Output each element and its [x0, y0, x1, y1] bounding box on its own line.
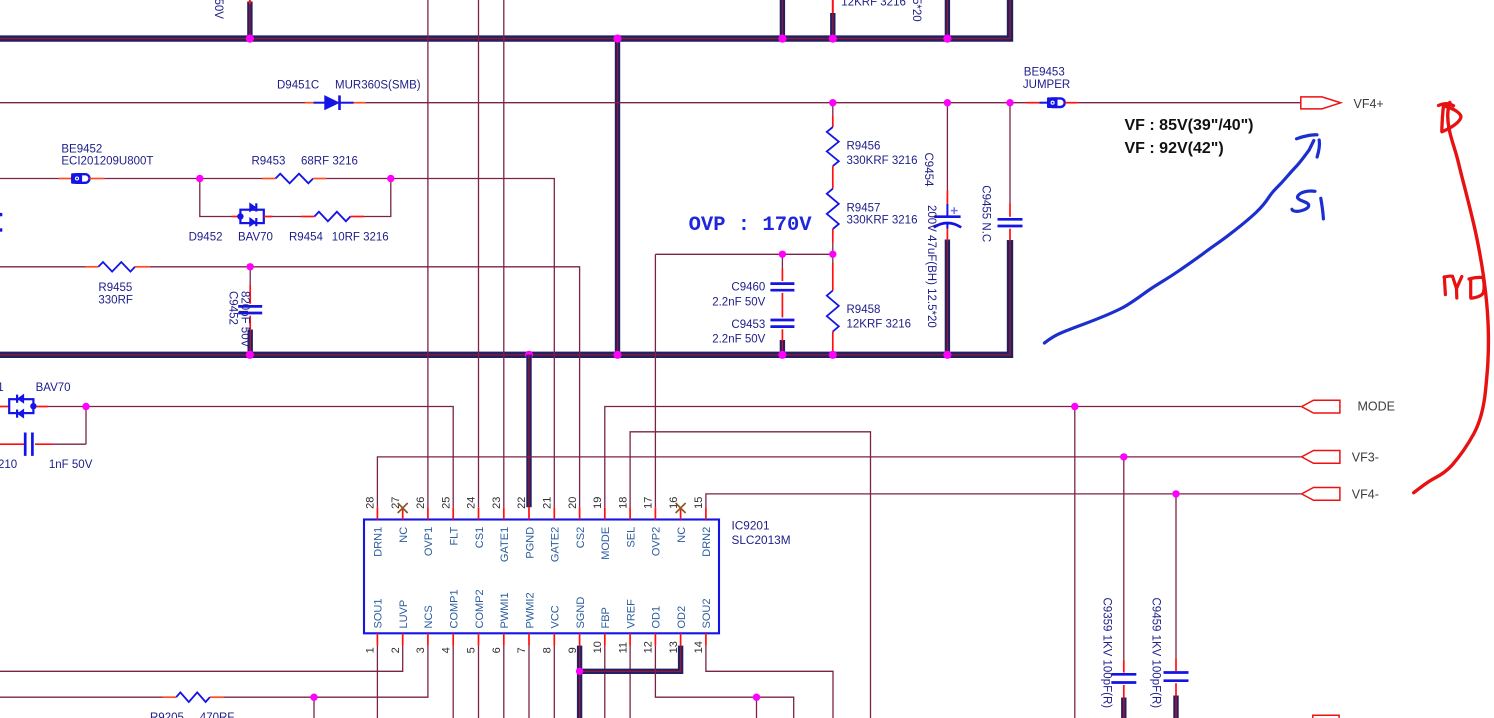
svg-text:14: 14: [693, 641, 705, 653]
svg-text:SLC2013M: SLC2013M: [732, 533, 791, 547]
capacitor C9210 1nF 50V: [0, 433, 86, 456]
svg-text:4: 4: [440, 647, 452, 653]
svg-text:26: 26: [415, 497, 427, 509]
capacitor C9455 N.C: [998, 103, 1023, 241]
svg-text:OVP1: OVP1: [423, 527, 435, 556]
pin 2 LUVP (bottom stub): [402, 633, 404, 645]
annotation: blue 1 after S: [1321, 198, 1324, 219]
wire: pin 6 PWMI1 down to bottom edge: [503, 646, 505, 718]
junction node VF4- C9459: [1172, 490, 1179, 497]
wire: pin 5 COMP2 down to bottom edge: [478, 646, 480, 718]
svg-text:3: 3: [415, 647, 427, 653]
wire: net from top edge to IC pin 24 CS1: [478, 0, 480, 507]
resistor R9453 68RF 3216: [263, 174, 327, 184]
wire: net from left edge to R9455: [0, 266, 86, 268]
wire: thick stub C9459 to bottom edge: [1173, 696, 1178, 718]
svg-text:NC: NC: [676, 527, 688, 543]
junction node bus2 x529: [525, 351, 533, 359]
svg-text:1: 1: [0, 382, 4, 394]
svg-text:BE9453: BE9453: [1024, 66, 1065, 78]
no-connect X on pin 16: [676, 503, 686, 513]
pin 6 PWMI1 (bottom stub): [503, 633, 505, 645]
wire: D9452 to R9454: [273, 216, 302, 218]
wire: VF3- net from IC pin 28 DRN1 to port: [377, 457, 1301, 507]
junction node NCS branch: [310, 694, 317, 701]
wire: bead to R9453, node at x=200: [104, 178, 262, 180]
svg-text:6: 6: [491, 647, 503, 653]
pin 22 PGND (top stub): [528, 507, 530, 519]
svg-text:VF : 92V(42"): VF : 92V(42"): [1125, 140, 1224, 157]
svg-text:25: 25: [440, 497, 452, 509]
svg-text:BE9452: BE9452: [61, 143, 102, 155]
svg-text:CS2: CS2: [575, 527, 587, 548]
junction node bus1 x833: [829, 35, 837, 43]
junction node R9453 right: [387, 175, 394, 182]
svg-text:12KRF 3216: 12KRF 3216: [841, 0, 906, 9]
capacitor C9452 820pF 50V: [238, 267, 262, 331]
svg-text:PGND: PGND: [524, 527, 536, 559]
svg-text:330KRF 3216: 330KRF 3216: [847, 155, 918, 167]
svg-text:C9460: C9460: [731, 282, 765, 294]
jumper BE9453: [1027, 98, 1065, 107]
svg-text:2.2nF 50V: 2.2nF 50V: [712, 297, 765, 309]
svg-text:VCC: VCC: [550, 605, 562, 628]
svg-text:VF : 85V(39"/40"): VF : 85V(39"/40"): [1125, 117, 1254, 134]
svg-text:C9453: C9453: [731, 319, 765, 331]
pin 17 OVP2 (top stub): [654, 507, 656, 519]
svg-text:22: 22: [516, 497, 528, 509]
junction node bus2 x250: [246, 351, 254, 359]
svg-text:820pF 50V: 820pF 50V: [238, 291, 250, 348]
svg-text:24: 24: [466, 497, 478, 509]
junction node MODE branch: [1071, 403, 1078, 410]
svg-text:DRN2: DRN2: [701, 527, 713, 557]
svg-text:210: 210: [0, 459, 17, 471]
svg-text:ECI201209U800T: ECI201209U800T: [61, 156, 153, 168]
svg-text:SGND: SGND: [575, 597, 587, 629]
svg-text:C9455 N.C: C9455 N.C: [979, 185, 991, 242]
junction node bus2 x947: [943, 351, 951, 359]
junction node VF4+ C9455: [1006, 99, 1013, 106]
svg-text:IC9201: IC9201: [732, 518, 770, 532]
wire: net from left edge to ferrite BE9452: [0, 178, 59, 180]
port VF4+: [1301, 97, 1341, 109]
port VF3-: [1302, 451, 1340, 464]
junction node OVP row C9460: [779, 251, 786, 258]
svg-text:470RF: 470RF: [200, 712, 235, 718]
wire: thick stub C9359 to bottom edge: [1121, 698, 1126, 718]
wire: branch down from NCS net at x=314: [313, 697, 315, 718]
resistor R9454 10RF 3216: [301, 212, 364, 222]
svg-text:PWMI2: PWMI2: [524, 592, 536, 628]
port fragment at bottom right edge: [1313, 715, 1339, 718]
svg-text:16: 16: [668, 497, 680, 509]
ferrite bead BE9452 ECI201209U800T: [59, 174, 104, 183]
svg-text:MODE: MODE: [1358, 399, 1396, 413]
svg-text:OD2: OD2: [676, 606, 688, 629]
resistor R9456 330KRF 3216: [827, 103, 839, 189]
svg-text:1nF 50V: 1nF 50V: [49, 459, 93, 471]
pin 15 DRN2 (top stub): [705, 507, 707, 519]
wire: branch down-left for D9452 parallel path: [200, 179, 232, 217]
svg-text:18: 18: [617, 497, 629, 509]
wire: ground return bus (lower horizontal, rises to C9455): [0, 240, 1010, 355]
annotation: blue S: [1292, 191, 1315, 211]
svg-text:8: 8: [542, 647, 554, 653]
pin 7 PWMI2 (bottom stub): [528, 633, 530, 645]
op-amp/controller IC9201 SLC2013M body: [364, 520, 719, 634]
svg-text:GATE2: GATE2: [550, 527, 562, 562]
dual diode D9201 BAV70 (left edge, left-pointing): [0, 395, 48, 418]
junction node bus2 x782: [778, 351, 786, 359]
wire: NCS pin 3 via R9205 to left edge: [224, 646, 428, 698]
svg-text:OVP2: OVP2: [651, 527, 663, 556]
wire: LUVP pin 2 to left edge: [0, 646, 403, 672]
svg-text:10RF 3216: 10RF 3216: [332, 232, 389, 244]
svg-text:VREF: VREF: [625, 599, 637, 629]
wire: OD1 pin 12 down and right: [655, 646, 793, 718]
junction node R9453 left: [196, 175, 203, 182]
wire: R9453 to corner down to IC pin 21 GATE2: [327, 179, 555, 508]
pin 3 NCS (bottom stub): [427, 633, 429, 645]
wire: OVP divider tap to IC pin 17 OVP2: [655, 254, 832, 507]
annotation: blue pen curve with arrow: [1044, 141, 1313, 344]
junction node bus1 x947: [943, 35, 951, 43]
svg-text:11: 11: [617, 642, 629, 653]
svg-text:200V 47uF(BH) 12.5*20: 200V 47uF(BH) 12.5*20: [925, 205, 937, 328]
svg-text:SOU2: SOU2: [701, 599, 713, 629]
wire: main HV+ bus (top horizontal): [0, 0, 1010, 39]
svg-text:15: 15: [693, 497, 705, 509]
svg-text:21: 21: [542, 497, 554, 509]
svg-text:SEL: SEL: [625, 527, 637, 548]
port MODE: [1302, 400, 1340, 413]
junction node bus1 x782: [778, 35, 786, 43]
svg-text:COMP1: COMP1: [449, 589, 461, 628]
svg-text:MODE: MODE: [600, 527, 612, 560]
svg-text:VF4-: VF4-: [1352, 488, 1379, 502]
no-connect X on pin 27: [398, 503, 408, 513]
svg-text:FLT: FLT: [449, 527, 461, 546]
annotation: red flag scribble top: [1439, 104, 1454, 106]
pin 27 NC (top stub): [402, 507, 404, 519]
pin 12 OD1 (bottom stub): [654, 633, 656, 645]
svg-text:R9454: R9454: [289, 232, 323, 244]
svg-text:LUVP: LUVP: [398, 600, 410, 629]
svg-text:C9452: C9452: [226, 291, 238, 325]
dual diode D9452 BAV70 (common-cathode, right-pointing): [232, 203, 273, 226]
svg-text:VF3-: VF3-: [1352, 451, 1379, 465]
svg-text:27: 27: [390, 497, 402, 509]
svg-text:23: 23: [491, 497, 503, 509]
junction node SGND/OD2: [576, 668, 583, 675]
electrolytic capacitor C9454 200V 47uF: [934, 103, 962, 241]
svg-text:D9451C: D9451C: [277, 80, 319, 92]
pin 5 COMP2 (bottom stub): [478, 633, 480, 645]
pin 28 DRN1 (top stub): [376, 507, 378, 519]
wire: VF4+ net horizontal from left edge to D9451C: [0, 102, 305, 104]
annotation: red letter N: [1444, 276, 1462, 298]
wire: thick stub C9452 to lower bus: [247, 330, 252, 355]
resistor R9205 470RF: [0, 692, 224, 702]
svg-text:BAV70: BAV70: [238, 232, 273, 244]
svg-text:C9454: C9454: [922, 153, 934, 187]
wire: MODE branch down at x=1075: [1074, 407, 1076, 718]
capacitor C9359 1KV 100pF(R): [1111, 457, 1136, 698]
junction node bus1 x250: [246, 35, 254, 43]
pin 1 SOU1 (bottom stub): [376, 633, 378, 645]
junction node VF3- C9359: [1120, 453, 1127, 460]
pin 18 SEL (top stub): [629, 507, 631, 519]
svg-text:OVP : 170V: OVP : 170V: [689, 214, 813, 237]
diode D9451C MUR360S(SMB): [305, 95, 366, 110]
junction node OVP row R9457: [829, 251, 836, 258]
wire: thick PGND net from lower bus to IC pin 22: [526, 355, 531, 508]
wire: pin 4 COMP1 down to bottom edge: [452, 646, 454, 718]
svg-text:5: 5: [466, 647, 478, 653]
junction node bus2 x833: [829, 351, 837, 359]
pin 19 MODE (top stub): [604, 507, 606, 519]
pin 8 VCC (bottom stub): [553, 633, 555, 645]
annotation: blue arrowhead bar: [1297, 135, 1318, 139]
junction node OD1 branch: [753, 694, 760, 701]
svg-text:C9459 1KV 100pF(R): C9459 1KV 100pF(R): [1149, 598, 1161, 709]
wire: thick OD2 pin 13 L to SGND net: [580, 646, 681, 672]
wire: net from top edge to IC pin 26 OVP1: [427, 0, 429, 507]
pin 9 SGND (bottom stub): [579, 633, 581, 645]
pin 24 CS1 (top stub): [478, 507, 480, 519]
svg-text:2.2nF 50V: 2.2nF 50V: [712, 334, 765, 346]
annotation: red letter D: [1469, 277, 1484, 298]
junction node R9455/C9452: [247, 263, 254, 270]
wire: SEL net from IC pin 18 across and down: [630, 432, 870, 718]
svg-text:JUMPER: JUMPER: [1023, 79, 1070, 91]
resistor R9458 12KRF 3216: [827, 254, 839, 352]
svg-text:VF4+: VF4+: [1354, 97, 1384, 111]
svg-text:D9452: D9452: [189, 232, 223, 244]
svg-text:PWMI1: PWMI1: [499, 592, 511, 628]
svg-text:R9453: R9453: [252, 155, 286, 167]
port VF4-: [1302, 488, 1340, 501]
junction node bus1 x617: [613, 35, 621, 43]
junction node bus2 x617: [613, 351, 621, 359]
wire: pin 11 VREF down to bottom edge: [629, 646, 631, 718]
svg-text:R9457: R9457: [847, 202, 881, 214]
svg-text:NCS: NCS: [423, 605, 435, 628]
svg-text:19: 19: [592, 497, 604, 509]
svg-text:17: 17: [643, 497, 655, 509]
wire: D9201 output to corner down to IC pin 25 FLT: [48, 407, 453, 508]
pin 13 OD2 (bottom stub): [680, 633, 682, 645]
annotation: blue tick right of arrow: [1317, 140, 1319, 157]
junction node VF4+ C9454: [944, 99, 951, 106]
wire: net from top edge to IC pin 23 GATE1: [503, 0, 505, 507]
svg-text:NC: NC: [398, 527, 410, 543]
wire: SOU2 pin 14 down right and down: [706, 646, 833, 718]
pin 14 SOU2 (bottom stub): [705, 633, 707, 645]
capacitor C9453 2.2nF 50V: [770, 293, 794, 341]
svg-text:12KRF 3216: 12KRF 3216: [847, 318, 912, 330]
svg-text:50V: 50V: [212, 0, 224, 19]
wire: VF4- net from IC pin 15 DRN2 to port: [706, 494, 1301, 507]
wire: thick stub C9454 to lower bus: [945, 240, 950, 355]
svg-text:R9458: R9458: [847, 304, 881, 316]
pin 21 GATE2 (top stub): [553, 507, 555, 519]
svg-text:10: 10: [592, 641, 604, 653]
svg-text:7: 7: [516, 647, 528, 653]
wire: R9455 across C9452 tap to corner down to IC pin 20 CS2: [150, 267, 580, 508]
wire: C9210 up to BAV70 net: [85, 407, 87, 445]
svg-text:COMP2: COMP2: [474, 589, 486, 628]
svg-text:OD1: OD1: [651, 606, 663, 629]
pin 25 FLT (top stub): [452, 507, 454, 519]
resistor R9457 330KRF 3216: [827, 189, 839, 255]
wire: lead of 12KRF resistor above sheet into bus at x=833: [832, 0, 834, 14]
wire: thick stub C9453 to lower bus: [780, 340, 785, 355]
pin 26 OVP1 (top stub): [427, 507, 429, 519]
svg-text:5*20: 5*20: [910, 0, 922, 22]
pin 10 FBP (bottom stub): [604, 633, 606, 645]
pin 4 COMP1 (bottom stub): [452, 633, 454, 645]
svg-text:68RF 3216: 68RF 3216: [301, 155, 358, 167]
svg-text:330KRF 3216: 330KRF 3216: [847, 214, 918, 226]
wire: VF4+ net jumper to port: [1065, 102, 1078, 104]
svg-text:330RF: 330RF: [98, 294, 133, 306]
wire: pin 10 FBP down to bottom edge: [604, 646, 606, 718]
wire: branch down from OD1 net at x=756.5: [756, 697, 758, 718]
svg-text:CS1: CS1: [474, 527, 486, 548]
junction node BAV70/C9210: [82, 403, 89, 410]
wire: thick vertical joining both buses at x=617: [615, 39, 620, 355]
svg-text:2: 2: [390, 647, 402, 653]
symbol fragment at left edge (blue tips): [0, 213, 2, 216]
wire: thick SGND pin 9 down to bottom edge: [577, 646, 582, 718]
svg-text:28: 28: [365, 497, 377, 509]
svg-text:12: 12: [643, 641, 655, 653]
wire: thick drop from top component into bus at x=250: [247, 2, 252, 39]
svg-text:SOU1: SOU1: [373, 599, 385, 629]
wire: pin 8 VCC down to bottom edge: [553, 646, 555, 718]
capacitor C9460 2.2nF 50V: [770, 254, 794, 290]
pin 20 CS2 (top stub): [579, 507, 581, 519]
svg-text:R9205: R9205: [150, 712, 184, 718]
svg-text:1: 1: [365, 647, 377, 653]
svg-text:FBP: FBP: [600, 607, 612, 628]
pin 11 VREF (bottom stub): [629, 633, 631, 645]
wire: SOU1 pin 1 down to bottom edge: [376, 646, 378, 718]
svg-text:C9359 1KV 100pF(R): C9359 1KV 100pF(R): [1100, 598, 1112, 709]
resistor R9455 330RF: [86, 262, 150, 272]
wire: R9454 up to node at R9453 output: [364, 179, 391, 217]
wire: MODE net from IC pin 19 to port: [605, 407, 1301, 508]
pin 16 NC (top stub): [680, 507, 682, 519]
wire: thick stub into bus at x=782: [780, 0, 785, 39]
svg-text:R9455: R9455: [98, 282, 132, 294]
junction node VF4+ R9456: [829, 99, 836, 106]
svg-text:GATE1: GATE1: [499, 527, 511, 562]
annotation: red long curve: [1414, 103, 1489, 493]
svg-text:R9456: R9456: [847, 141, 881, 153]
capacitor C9459 1KV 100pF(R): [1164, 494, 1189, 696]
pin 23 GATE1 (top stub): [503, 507, 505, 519]
wire: VF4+ net from D9451C to jumper BE9453: [366, 102, 1027, 104]
wire: pin 7 PWMI2 down to bottom edge: [528, 646, 530, 718]
wire: thick stub into bus at x=947: [945, 0, 950, 39]
svg-text:MUR360S(SMB): MUR360S(SMB): [335, 80, 421, 92]
svg-text:DRN1: DRN1: [373, 527, 385, 557]
svg-text:20: 20: [567, 497, 579, 509]
svg-text:BAV70: BAV70: [36, 382, 71, 394]
